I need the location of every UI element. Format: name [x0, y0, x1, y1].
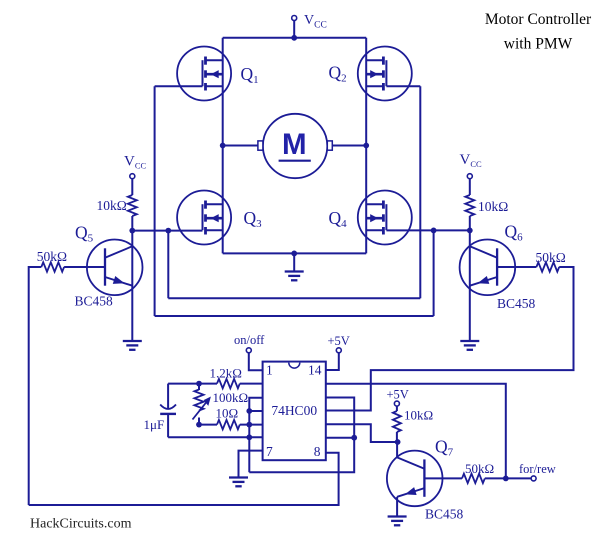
svg-text:on/off: on/off [234, 333, 265, 347]
svg-text:with PMW: with PMW [504, 36, 573, 53]
IC notch [289, 363, 300, 369]
ground bridge [285, 270, 304, 272]
wire motor right [332, 145, 366, 147]
power terminal +5V right [394, 401, 399, 406]
svg-text:50kΩ: 50kΩ [536, 250, 566, 265]
wire Q5 vertical [131, 231, 133, 341]
node Q5 collector junction [129, 228, 135, 234]
node tie2 [246, 422, 252, 428]
wire 10k to node [131, 216, 133, 231]
wire 10ohm to pin3 [240, 424, 263, 426]
wire Vcc stem [293, 21, 295, 38]
transistor Q4 [358, 191, 412, 245]
wire cross line upper [168, 297, 420, 299]
motor M circle [263, 114, 327, 178]
ground Q5 [123, 340, 142, 342]
svg-text:Motor Controller: Motor Controller [485, 11, 592, 28]
svg-text:74HC00: 74HC00 [271, 403, 317, 418]
IC U1 74HC00 body [263, 362, 326, 461]
wire Vcc right to resistor [469, 179, 471, 195]
wire top rail [223, 37, 367, 39]
power terminal +5V top [336, 348, 341, 353]
capacitor C1 top wire [167, 384, 169, 410]
transistor Q3 [177, 191, 231, 245]
wire pin8 route [29, 453, 339, 505]
svg-text:50kΩ: 50kΩ [37, 249, 67, 264]
node Q7 base junction [395, 439, 401, 445]
svg-text:BC458: BC458 [425, 507, 464, 522]
svg-text:+5V: +5V [387, 388, 409, 402]
wire 10k right to node [469, 216, 471, 230]
resistor 10ohm [217, 420, 240, 429]
transistor Q7 [387, 451, 443, 507]
svg-text:14: 14 [308, 363, 322, 378]
wire Q7 base to 50k [424, 477, 462, 479]
wire Q4 gate rail [386, 229, 469, 231]
wire Q4 branch vertical [433, 230, 435, 316]
wire 50k to Q5 base [64, 266, 105, 268]
svg-text:8: 8 [314, 444, 321, 459]
motor right brush box [327, 141, 332, 150]
svg-text:+5V: +5V [328, 334, 350, 348]
wire pot top stub [198, 384, 200, 390]
svg-text:BC458: BC458 [75, 294, 114, 309]
motor underline [279, 160, 311, 162]
node Q6 collector junction [467, 228, 473, 234]
wire +5V to pin14 [326, 353, 339, 370]
svg-text:HackCircuits.com: HackCircuits.com [30, 517, 132, 532]
wire left bridge vertical [222, 38, 224, 254]
node top rail junction [291, 35, 297, 41]
wire Q6 base route to IC [326, 267, 574, 411]
svg-text:1μF: 1μF [144, 417, 165, 432]
wire pot bottom stub [198, 418, 200, 425]
wire Q1 gate vertical [154, 86, 156, 316]
potentiometer 100k body [194, 390, 203, 411]
wire Vcc left to resistor [131, 179, 133, 195]
transistor Q2 [358, 47, 412, 101]
wire pin13 to forrew [326, 384, 506, 479]
wire right bridge vertical [365, 38, 367, 254]
svg-text:BC458: BC458 [497, 296, 536, 311]
wire cap bottom rail [168, 436, 263, 438]
node pot bottom junction [196, 422, 202, 428]
capacitor C1 flat plate [160, 413, 176, 415]
wire cross line lower [155, 315, 434, 317]
wire Q6 base to 50k [497, 266, 536, 268]
resistor 10k right [465, 195, 474, 216]
node right tie [351, 435, 357, 441]
node bottom rail junction [291, 251, 297, 257]
power terminal Vcc right [467, 174, 472, 179]
wire on-off to pin1 [249, 353, 263, 371]
svg-text:10Ω: 10Ω [216, 406, 239, 421]
transistor Q5 [87, 239, 143, 295]
wire pot dot to 10ohm [199, 424, 217, 426]
wire 10k to node [396, 432, 398, 442]
wire 50k to forrew node [485, 477, 506, 479]
svg-text:for/rew: for/rew [519, 462, 556, 476]
wire cap top rail [168, 383, 217, 385]
svg-text:1.2kΩ: 1.2kΩ [210, 366, 242, 381]
transistor Q1 [177, 47, 231, 101]
resistor 50k Q6 [536, 262, 559, 271]
resistor 1.2k [217, 379, 240, 388]
wire forrew stub [506, 477, 531, 479]
wire pin5 corner [249, 398, 262, 473]
wire Q7 emitter vertical [396, 497, 398, 517]
wire Q5 collector to Q3 gate [132, 230, 202, 232]
motor left brush box [258, 141, 263, 150]
wire Q6 vertical [469, 230, 471, 340]
wire pin11 to Q7 [326, 424, 398, 442]
node motor left junction [220, 143, 226, 149]
capacitor C1 bottom wire [167, 414, 169, 437]
wire bottom bridge rail [223, 252, 367, 254]
wire left edge corner [29, 267, 42, 505]
resistor 50k Q7 [462, 474, 485, 483]
svg-text:M: M [282, 128, 307, 161]
output terminal forrew [531, 476, 536, 481]
wire bypass under IC [249, 398, 354, 473]
node cap-1.2k junction [196, 381, 202, 387]
svg-text:10kΩ: 10kΩ [478, 199, 508, 214]
ground Q7 [388, 515, 407, 517]
resistor 50k Q5 [41, 262, 64, 271]
node Q4 gate branch [431, 228, 437, 234]
wire pin7 to ground [239, 451, 263, 478]
wire motor left [223, 145, 258, 147]
svg-text:7: 7 [266, 444, 273, 459]
power terminal Vcc top [292, 16, 297, 21]
wire Q7 collector vertical [396, 442, 398, 457]
node tie3 [246, 434, 252, 440]
svg-text:50kΩ: 50kΩ [465, 461, 494, 476]
wire Q1 gate lead [155, 85, 203, 87]
svg-text:1: 1 [266, 363, 273, 378]
wire pin4 stub [249, 410, 262, 412]
wire Q2 gate lead [386, 85, 420, 87]
svg-text:100kΩ: 100kΩ [213, 390, 249, 405]
power terminal Vcc left [130, 174, 135, 179]
potentiometer arrow [193, 400, 209, 420]
wire +5V to 10k [396, 406, 398, 411]
wire pin10 stub [326, 437, 354, 439]
input terminal on-off [246, 348, 251, 353]
resistor 10k Q7 [393, 411, 401, 432]
wire 1.2k to pin2 [240, 383, 263, 385]
ground Q6 [460, 340, 479, 342]
svg-text:10kΩ: 10kΩ [404, 408, 433, 423]
wire ground stem bridge [293, 253, 295, 271]
node forrew junction [503, 476, 509, 482]
capacitor C1 curved plate [160, 405, 176, 410]
wire Q2 gate vertical [419, 86, 421, 298]
ground IC [229, 476, 248, 478]
wire Q3 gate branch vertical [167, 231, 169, 299]
transistor Q6 [460, 239, 516, 295]
node Q3 gate branch [165, 228, 171, 234]
svg-text:10kΩ: 10kΩ [97, 198, 127, 213]
node tie1 [246, 408, 252, 414]
resistor 10k left [128, 195, 137, 216]
node motor right junction [363, 143, 369, 149]
